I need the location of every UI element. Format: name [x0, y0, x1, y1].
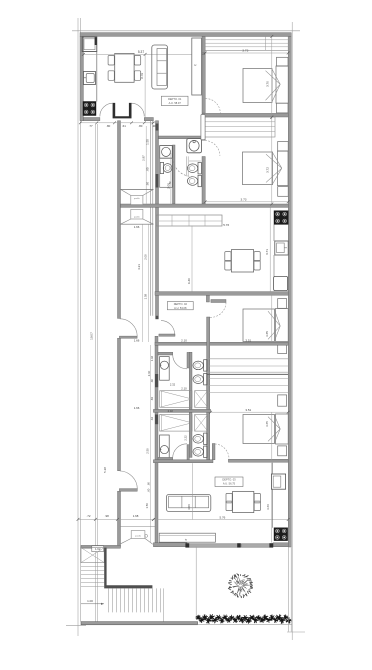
dining table depto01 with chairs [115, 54, 134, 83]
wall: bath2 north [158, 352, 173, 355]
wall: bath2 WC divider [189, 352, 192, 409]
dim 3.65 bedroom3 vertical [271, 295, 273, 342]
svg-text:19.07: 19.07 [90, 332, 94, 340]
dining table depto03 with chairs [233, 491, 254, 512]
stair lower flight treads [108, 588, 110, 612]
svg-text:3.65: 3.65 [265, 421, 269, 427]
svg-text:DEPTO. 03: DEPTO. 03 [222, 478, 236, 482]
wall: corridor east upper (layered) [150, 121, 152, 316]
wall: bath3 WC divider [189, 412, 192, 457]
door bedroom3: leaf [211, 300, 226, 303]
bedroom2 closet [205, 117, 275, 137]
fixture: WC1 toilet in shower box [160, 158, 173, 187]
svg-text:1.66: 1.66 [134, 338, 140, 342]
dining table depto02 with chairs [231, 250, 253, 272]
hedge row (shrubs) [196, 615, 201, 620]
wall: bedroom3 south [155, 342, 288, 345]
door bedroom1: swing arc (dashed) [205, 98, 220, 113]
site: left property line (double) [77, 18, 79, 636]
svg-text:5.28: 5.28 [103, 467, 107, 473]
dim 3.66 depto03 vertical [270, 463, 272, 543]
dim 3.65 bedroom4 vertical [271, 412, 273, 460]
stair upper flight treads [81, 566, 104, 568]
wall: bedroom4 south / depto03 north [153, 460, 213, 463]
depto02 kitchen column edges [273, 224, 275, 241]
svg-text:2.32: 2.32 [170, 382, 176, 386]
tree in backyard [228, 573, 253, 598]
door bedroom2: swing arc (dashed) [205, 141, 220, 156]
svg-text:3.73: 3.73 [242, 49, 248, 53]
svg-text:.72: .72 [86, 514, 90, 518]
wall: right exterior [288, 36, 291, 547]
bed bedroom3 [243, 309, 275, 342]
wall: bath zone north (y136) [159, 136, 203, 139]
closet bedroom4 (rails) [207, 377, 289, 379]
svg-text:.30: .30 [152, 124, 156, 128]
svg-text:.98: .98 [105, 514, 109, 518]
door depto02 patio: leaf [119, 336, 137, 338]
dim 3.06 depto03 vertical [191, 463, 193, 519]
svg-text:pasillo: pasillo [135, 535, 142, 537]
fixture: bath1 bidet [198, 175, 201, 186]
label box DEPTO 03 [215, 477, 243, 487]
wall: corridor east lower (jogged) [155, 336, 158, 546]
svg-text:2.87: 2.87 [142, 155, 146, 161]
svg-text:.61: .61 [122, 124, 126, 128]
dim 3.70 bedroom1 vertical [271, 36, 273, 117]
svg-text:1.68: 1.68 [133, 514, 139, 518]
dim row bottom left [78, 518, 153, 520]
sofa depto01 [152, 45, 168, 89]
fixture: bath2 washbasin [160, 357, 170, 381]
stair landing with cross [81, 548, 104, 563]
dim 6.40 depto02 vertical [191, 226, 193, 292]
bed bedroom1 [243, 69, 272, 103]
door bedroom4: leaf [212, 444, 215, 460]
ramp pasillo upper (trapezoid 2) [131, 209, 143, 219]
door depto02 entry: leaf [159, 334, 175, 336]
wall: left exterior upper (kitchen side) [80, 36, 83, 120]
hedge base line [197, 624, 292, 626]
svg-text:2.00: 2.00 [166, 183, 170, 189]
dim 19.07 site left [94, 124, 96, 622]
shower bath3 [160, 415, 192, 432]
svg-text:2.22: 2.22 [184, 435, 188, 441]
kitchen: stove (4 burners) [83, 102, 96, 116]
bed bedroom4 [243, 415, 275, 444]
cabinet bath2 right [195, 391, 208, 408]
label box DEPTO 02 [167, 302, 193, 310]
wall cap at depto02 entry [155, 316, 158, 319]
shower bath2 [160, 391, 192, 408]
door depto02 patio: swing arc [120, 319, 137, 336]
window: sliding panel 2 [241, 544, 271, 547]
fixture: bath1 toilet [198, 163, 201, 174]
svg-text:6.40: 6.40 [187, 278, 191, 284]
svg-text:1.66: 1.66 [134, 225, 140, 229]
wall pier bath3 west [155, 415, 158, 425]
svg-text:A.U. 53.08: A.U. 53.08 [174, 306, 187, 310]
backyard edge line [195, 547, 197, 618]
door bath2: swing arc [173, 355, 187, 369]
ramp pasillo upper (trapezoid 1) [121, 188, 154, 190]
fixture: bath3 bidet [204, 446, 207, 457]
dim 2.00 bath1 [170, 153, 172, 204]
svg-text:3.51: 3.51 [245, 408, 251, 412]
kitchen depto03: counter edge [272, 463, 274, 474]
wall: building south with window openings [153, 543, 187, 547]
refrigerator depto02 [274, 276, 288, 290]
site: bottom-left boundary tick [66, 624, 86, 626]
svg-text:1.58: 1.58 [143, 293, 147, 299]
wall: top exterior [80, 33, 291, 37]
door corridor to patio depto03: leaf [119, 489, 137, 492]
window end caps [185, 543, 189, 547]
door bath2: leaf [187, 352, 189, 368]
dim 3.73 bedroom2 [205, 201, 288, 203]
entry door swing arc right [132, 103, 145, 116]
wall: stair L-wall [104, 548, 152, 589]
bath1 WC compartment lines [185, 156, 187, 176]
wall: bedroom1 south [202, 113, 288, 117]
fixture: bath3 toilet [204, 433, 207, 444]
svg-text:2.10: 2.10 [181, 387, 187, 391]
svg-text:.80: .80 [106, 124, 110, 128]
wall stub bedroom3 west top [206, 295, 209, 302]
wall: depto02 living / bedroom3 [155, 292, 288, 296]
stove depto02 [274, 211, 288, 225]
stove depto03 [274, 528, 288, 541]
wall: bath3 south [158, 457, 173, 460]
kitchen: counter edge [96, 52, 98, 102]
label box DEPTO 01 [161, 96, 188, 105]
wall: WC/bath divider [173, 145, 176, 204]
svg-text:.60: .60 [147, 482, 151, 486]
svg-text:DEPTO. 02: DEPTO. 02 [174, 302, 188, 306]
entry door swing arc left [100, 103, 113, 116]
dim 3.71 depto02 vertical [269, 207, 271, 291]
fixture: bath1 washbasin [187, 139, 202, 153]
tv cabinet depto03 [159, 533, 215, 542]
backyard right fence lines [288, 547, 290, 632]
svg-text:A.U. 56.75: A.U. 56.75 [223, 482, 236, 486]
kitchen: sink cabinet [83, 72, 95, 85]
svg-text:3.70: 3.70 [140, 73, 144, 79]
sink depto02 [275, 241, 288, 255]
wall: entry front left segment [83, 118, 100, 121]
dim 3.73 bedroom1 [205, 52, 288, 54]
wall: bedroom3/4 west [207, 317, 210, 460]
svg-text:.77: .77 [89, 124, 93, 128]
svg-text:3.06: 3.06 [187, 504, 191, 510]
svg-text:.80: .80 [138, 124, 142, 128]
dim 3.70 living depth [144, 54, 146, 117]
site: bottom-right boundary tick [287, 631, 305, 633]
dim row under living: line [80, 122, 156, 124]
door bath3: leaf [187, 445, 189, 461]
svg-text:.60: .60 [147, 488, 151, 492]
svg-text:4.21: 4.21 [137, 264, 141, 270]
sofa depto03 [166, 494, 210, 511]
kitchen depto03: sink [271, 474, 285, 489]
svg-text:1.00: 1.00 [87, 599, 93, 603]
kitchen: refrigerator [82, 37, 97, 52]
svg-text:A.U. 58.07: A.U. 58.07 [169, 101, 182, 105]
depto02 kitchen counter [156, 215, 222, 226]
door bath3: swing arc [173, 444, 187, 458]
stair side line [163, 588, 165, 621]
svg-text:5.37: 5.37 [138, 50, 144, 54]
dim 3.72 bedroom2 vertical [271, 117, 273, 204]
door corridor to patio depto03: swing arc [120, 471, 138, 489]
bed bedroom2 [243, 152, 273, 185]
door depto02 entry: swing arc [161, 321, 175, 335]
wall: bottom boundary (rear) [81, 622, 198, 625]
wall: entry front right segment [144, 118, 153, 121]
svg-text:3.65: 3.65 [265, 331, 269, 337]
closet bedroom3 (rails) [207, 358, 289, 360]
window: sliding panel 1 [187, 544, 239, 547]
svg-text:pasillo: pasillo [134, 217, 141, 219]
fixture: WC1 washbasin [160, 146, 173, 159]
wall: corridor west (building left lower) [118, 121, 121, 319]
fixture: bath2 toilet [204, 360, 207, 371]
bedroom1 closet [205, 36, 288, 50]
door bedroom4: swing arc (dashed) [215, 444, 229, 459]
dim 5.37 living width [83, 53, 192, 55]
wall pier bath2 west [155, 374, 158, 387]
svg-text:DEPTO. 01: DEPTO. 01 [168, 97, 182, 101]
wall: unit party wall depto01/02 [121, 204, 289, 207]
site: right property line [291, 22, 293, 640]
fixture: bath2 bidet [204, 374, 207, 385]
door bath1: dashed swing arc [173, 158, 192, 177]
svg-text:3.70: 3.70 [265, 81, 269, 87]
fixture: bath3 washbasin [160, 435, 170, 458]
dim 1.00 stair [81, 603, 104, 605]
svg-text:pasillo: pasillo [134, 198, 141, 200]
tv cabinet depto01 [192, 38, 202, 95]
wall: party wall depto02/03 (baths) [153, 409, 210, 412]
dim 5.76 depto03 [153, 519, 288, 521]
svg-text:2.10: 2.10 [181, 338, 187, 342]
svg-text:2.32: 2.32 [168, 409, 174, 413]
wall: bedroom2 west [202, 117, 205, 140]
svg-text:2.50: 2.50 [145, 448, 149, 454]
cabinet bath3 right [195, 415, 208, 432]
wall: stair top [81, 545, 121, 548]
entry door pocket (U shape) [113, 103, 132, 119]
svg-text:3.73: 3.73 [240, 198, 246, 202]
dim 3.51 bedroom4 [211, 411, 289, 413]
svg-text:5.76: 5.76 [223, 223, 229, 227]
svg-text:3.71: 3.71 [265, 249, 269, 255]
svg-text:1.66: 1.66 [134, 406, 140, 410]
svg-text:5.76: 5.76 [219, 515, 225, 519]
door bedroom3: swing arc (dashed) [210, 303, 226, 318]
label 1.62 (stair landing) [92, 546, 104, 552]
svg-text:3.72: 3.72 [265, 167, 269, 173]
wall: living / bedroom1 divider [202, 36, 205, 113]
closet party wall line [207, 373, 289, 375]
svg-text:2.00: 2.00 [143, 254, 147, 260]
svg-text:3.66: 3.66 [266, 504, 270, 510]
dim line corridor lower [150, 345, 152, 542]
svg-text:1.50: 1.50 [145, 503, 149, 509]
site: top boundary line [72, 30, 300, 32]
svg-text:3.51: 3.51 [245, 338, 251, 342]
dim lines corridor mid [142, 224, 144, 342]
ramp pasillo lower (exit) [121, 526, 156, 528]
